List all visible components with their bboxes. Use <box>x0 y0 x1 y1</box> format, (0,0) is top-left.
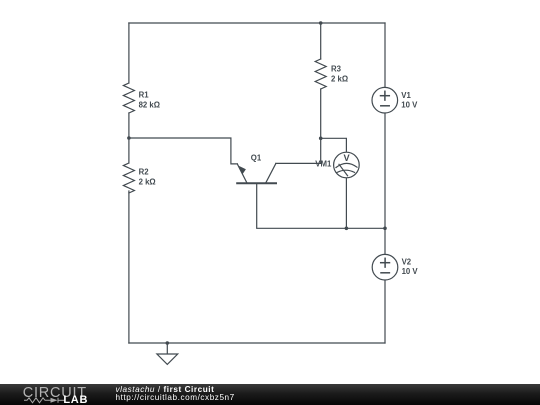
svg-text:V: V <box>344 153 351 163</box>
resistor R1 <box>123 83 134 113</box>
wire node to VM1 <box>321 138 347 152</box>
wire R1 bottom <box>128 113 130 163</box>
CircuitLab logo <box>0 384 110 405</box>
wire collector horizontal <box>276 162 321 164</box>
node ground <box>166 341 170 345</box>
svg-text:10 V: 10 V <box>402 267 419 276</box>
resistor R3 <box>315 59 326 89</box>
source V2 <box>372 254 398 280</box>
caption text <box>116 386 235 402</box>
node VM1/base wire <box>345 227 349 231</box>
svg-text:LAB: LAB <box>63 394 88 405</box>
svg-text:10 V: 10 V <box>401 101 418 110</box>
node base wire/right wire <box>383 227 387 231</box>
svg-text:2 kΩ: 2 kΩ <box>331 74 348 83</box>
node R3/collector/VM1 <box>319 137 323 141</box>
wire V1 to dot <box>384 113 386 254</box>
voltmeter VM1 <box>334 152 360 178</box>
node top/R3 <box>319 21 323 25</box>
wire VM1 bottom <box>345 178 347 229</box>
wire left top (to R1) <box>128 23 130 83</box>
wire R3 bottom <box>320 89 322 163</box>
wire R3 top <box>320 23 322 59</box>
svg-text:VM1: VM1 <box>315 160 332 169</box>
wire V2 bottom <box>384 280 386 343</box>
wire base net <box>257 183 385 228</box>
svg-text:V1: V1 <box>401 91 411 100</box>
source V1 <box>372 87 398 113</box>
wire right top (to V1) <box>384 23 386 88</box>
resistor R2 <box>123 163 134 193</box>
svg-text:R3: R3 <box>331 65 342 74</box>
svg-text:R1: R1 <box>139 91 150 100</box>
transistor Q1 <box>237 164 276 184</box>
wire emitter net <box>129 138 238 164</box>
ground <box>157 343 178 364</box>
svg-text:82 kΩ: 82 kΩ <box>139 100 160 109</box>
svg-text:V2: V2 <box>402 258 412 267</box>
wire left bottom <box>128 191 130 343</box>
wire bottom <box>129 342 385 344</box>
svg-text:2 kΩ: 2 kΩ <box>139 177 156 186</box>
node R1/R2 junction <box>127 136 131 140</box>
svg-text:Q1: Q1 <box>251 154 262 163</box>
footer bar <box>0 384 540 405</box>
svg-text:R2: R2 <box>139 168 150 177</box>
wire top <box>129 22 385 24</box>
